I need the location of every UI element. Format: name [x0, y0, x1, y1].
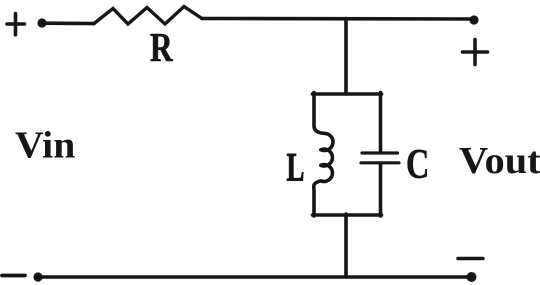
svg-text:Vout: Vout: [459, 139, 540, 182]
wire: LC tank bottom: [313, 213, 382, 217]
input − polarity mark: [2, 274, 25, 278]
wire: resistor to output node (top rail): [202, 17, 474, 21]
node: top-right output terminal dot: [469, 15, 478, 24]
wire: right branch upper (tank top to capacitor): [379, 93, 383, 152]
output + polarity mark: [463, 40, 488, 65]
wire: right branch lower (capacitor to tank bottom): [379, 164, 383, 216]
input + polarity mark: [7, 14, 25, 35]
capacitor C bottom plate: [361, 161, 399, 164]
node: top-left input terminal dot: [37, 18, 46, 27]
node: bottom-left terminal dot: [33, 272, 42, 281]
svg-text:Vin: Vin: [15, 124, 75, 166]
wire: input terminal to resistor: [46, 21, 94, 25]
resistor R: [94, 7, 202, 25]
capacitor C top plate: [362, 151, 398, 154]
svg-text:L: L: [287, 146, 305, 189]
wire: bottom return rail: [40, 275, 471, 279]
svg-text:R: R: [150, 24, 173, 70]
output − polarity mark: [458, 257, 483, 261]
wire: LC tank top: [313, 92, 382, 96]
wire: tank bottom stub down to return rail (junction): [344, 214, 348, 277]
svg-text:C: C: [406, 141, 429, 188]
inductor L: [314, 93, 333, 217]
node: bottom-right terminal dot: [467, 272, 477, 282]
wire: top stub down to LC tank (junction at top rail): [344, 19, 348, 95]
